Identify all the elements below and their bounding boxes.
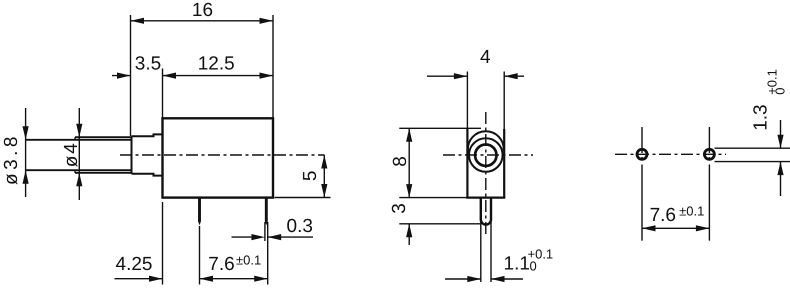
dimension 5 (275, 197, 331, 199)
dimension 3.5 (112, 75, 131, 77)
svg-text:7.6: 7.6 (650, 205, 676, 226)
dimension dia 4 (78, 108, 80, 200)
svg-text:4.25: 4.25 (116, 254, 153, 275)
barrel o4 section outline (75, 136, 132, 138)
dimension 4.25 (162, 202, 164, 285)
dimension 4 (front) (466, 72, 468, 147)
svg-text:0: 0 (773, 88, 788, 95)
dimension 0.3 (264, 222, 266, 241)
svg-text:±0.1: ±0.1 (679, 204, 704, 219)
left view flange (132, 134, 163, 175)
barrel o3.8 bore lines (26, 139, 132, 141)
svg-text:1.1: 1.1 (504, 254, 530, 275)
front view body sides (466, 129, 468, 198)
left view centerline (axis) (120, 154, 325, 156)
dimension dia 3.8 (25, 108, 27, 197)
svg-text:4: 4 (480, 47, 491, 68)
dimension 16 (130, 15, 132, 136)
svg-text:5: 5 (300, 171, 321, 182)
dimension 7.6 (hole pattern) (642, 227, 709, 229)
front view center hole circle (475, 145, 496, 166)
dimension 1.1 (445, 278, 481, 280)
svg-text:8: 8 (390, 156, 411, 167)
front view vertical centerline (485, 112, 487, 234)
svg-text:12.5: 12.5 (198, 54, 235, 75)
hole 1 (637, 149, 647, 159)
front view body bottom (466, 197, 505, 199)
svg-text:7.6: 7.6 (208, 254, 234, 275)
svg-text:16: 16 (192, 0, 213, 21)
pin 1 (side view) (198, 198, 201, 222)
pin 2 (side view) (265, 198, 268, 222)
svg-text:1.3: 1.3 (751, 104, 772, 130)
front view pin (481, 198, 491, 225)
dimension 7.6 (side view) (199, 226, 201, 285)
hole 2 centerline vertical (708, 127, 710, 188)
svg-text:3: 3 (389, 203, 410, 214)
hole 1 centerline vertical (641, 127, 643, 188)
hole 2 (704, 149, 714, 159)
svg-text:3.5: 3.5 (135, 54, 161, 75)
front view dome arc (468, 131, 504, 150)
svg-text:0: 0 (530, 259, 537, 274)
front view sleeve circle (469, 138, 503, 172)
front pin extension lines (480, 222, 482, 282)
hole pattern horizontal centerline (615, 153, 726, 155)
left view body outline (163, 118, 274, 197)
svg-text:0.3: 0.3 (287, 216, 313, 237)
svg-text:ø4: ø4 (61, 141, 82, 167)
dimension 12.5 (162, 69, 164, 118)
svg-text:ø3.8: ø3.8 (1, 133, 22, 185)
front view horizontal centerline (443, 154, 533, 156)
dimension 8 (399, 127, 481, 129)
svg-text:±0.1: ±0.1 (236, 253, 261, 268)
dimension 3 (399, 197, 467, 199)
dimension 1.3 hole diameter (715, 147, 790, 149)
